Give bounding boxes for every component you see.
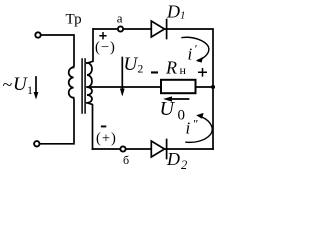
svg-text:D: D xyxy=(166,2,180,22)
svg-text:0: 0 xyxy=(178,107,186,123)
svg-text:а: а xyxy=(117,11,123,26)
svg-text:R: R xyxy=(165,58,177,78)
svg-text:i: i xyxy=(188,45,193,64)
svg-text:U: U xyxy=(160,98,176,120)
svg-text:2: 2 xyxy=(181,158,187,172)
svg-text:1: 1 xyxy=(180,10,186,22)
svg-text:i: i xyxy=(186,119,191,138)
svg-text:D: D xyxy=(166,149,180,169)
svg-text:': ' xyxy=(194,42,197,56)
svg-text:U: U xyxy=(13,74,28,95)
svg-text:": " xyxy=(193,117,199,131)
svg-text:б: б xyxy=(123,153,129,167)
svg-text:U: U xyxy=(124,54,139,75)
svg-text:н: н xyxy=(180,63,187,77)
svg-text:(−): (−) xyxy=(95,39,116,55)
svg-text:~: ~ xyxy=(3,75,13,95)
svg-text:Тр: Тр xyxy=(66,12,82,28)
svg-text:2: 2 xyxy=(138,64,144,76)
svg-text:1: 1 xyxy=(27,83,33,97)
svg-text:(+): (+) xyxy=(96,130,117,146)
